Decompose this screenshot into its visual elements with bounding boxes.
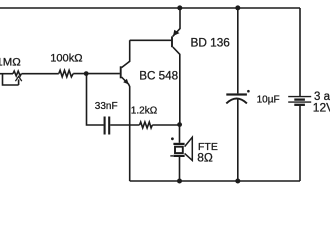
wire speaker vertical bottom: [179, 157, 181, 181]
wire C1 to R2: [110, 124, 139, 126]
node dot top rail / Q2 emitter: [177, 5, 182, 10]
wire C2 10uF vertical top: [237, 8, 239, 93]
wire R1 to BC548 base: [73, 73, 120, 75]
capacitor C2 10uF top plate: [226, 93, 247, 95]
battery B1 plate short lower: [294, 104, 305, 106]
battery B1 plate short upper: [294, 98, 305, 100]
svg-text:100kΩ: 100kΩ: [50, 53, 82, 65]
capacitor C1 33nF right plate: [108, 117, 110, 135]
wire C2 10uF vertical bottom: [237, 99, 239, 181]
wire top supply rail: [0, 7, 300, 9]
wire node A vertical down from junction: [87, 74, 104, 125]
transistor Q2 emitter lead: [173, 8, 180, 36]
resistor R1 100k zigzag: [59, 70, 73, 77]
transistor Q2 BD136 base bar: [171, 36, 173, 47]
wire Q1 collector to Q2 base: [130, 39, 172, 41]
wire speaker vertical top: [179, 125, 181, 143]
svg-text:12V: 12V: [313, 101, 330, 115]
svg-text:10µF: 10µF: [257, 94, 280, 105]
capacitor C1 33nF left plate: [104, 117, 106, 135]
transistor Q1 emitter arrow: [123, 79, 129, 85]
transistor Q2 collector lead: [173, 47, 180, 125]
speaker SPK1 cone: [185, 137, 193, 160]
potentiometer wiper arrow: [15, 76, 21, 81]
speaker SPK1 top plate: [173, 143, 184, 145]
speaker polarity minus dash: [170, 155, 173, 157]
capacitor C2 plus mark: [247, 90, 250, 93]
wire battery right vertical top: [299, 8, 301, 96]
transistor Q2 emitter arrow: [173, 30, 180, 36]
svg-text:BC 548: BC 548: [139, 69, 178, 82]
wire battery right vertical bottom: [299, 106, 301, 181]
node dot B R2/speaker/Q2 collector: [177, 122, 182, 127]
svg-text:33nF: 33nF: [95, 101, 118, 112]
svg-text:8Ω: 8Ω: [197, 151, 213, 165]
svg-text:1MΩ: 1MΩ: [0, 57, 21, 69]
battery B1 plate long top: [288, 96, 311, 98]
node dot bottom rail / C2: [235, 179, 240, 184]
speaker SPK1 coil box: [175, 147, 183, 153]
transistor Q1 BC548 base bar: [120, 66, 122, 78]
transistor Q1 emitter lead: [122, 77, 130, 181]
battery B1 plate long bottom: [288, 101, 311, 103]
resistor R2 1.2k zigzag: [140, 122, 153, 128]
wire R2 to node B: [152, 124, 179, 126]
node dot bottom rail / speaker: [177, 179, 182, 184]
node dot top rail / C2: [235, 5, 240, 10]
potentiometer P1 1M zigzag: [13, 71, 21, 76]
speaker SPK1 bottom plate: [173, 155, 184, 157]
wire bottom ground rail: [130, 180, 300, 182]
transistor Q1 collector lead: [122, 40, 130, 67]
wire potentiometer left lead: [0, 73, 13, 75]
wire wiper loop to left terminal: [3, 74, 19, 85]
node dot R1 junction: [84, 71, 89, 76]
capacitor C2 10uF curved plate: [226, 98, 247, 103]
speaker polarity plus dot: [171, 137, 174, 140]
svg-text:BD 136: BD 136: [191, 36, 231, 50]
svg-text:1.2kΩ: 1.2kΩ: [131, 106, 158, 117]
wire pot to R1: [22, 73, 59, 75]
